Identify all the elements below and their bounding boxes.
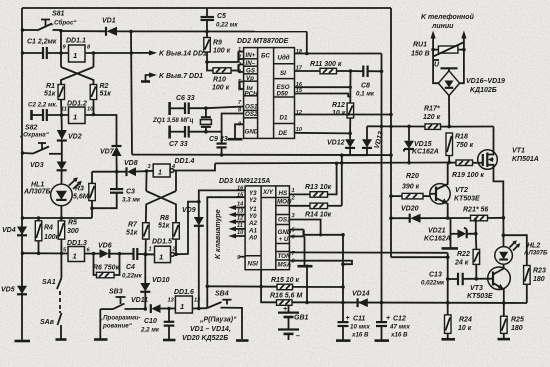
svg-text:14: 14 — [237, 201, 244, 207]
logic element DD1.1 — [63, 38, 92, 63]
wire GND pins 5-6 tie — [289, 230, 303, 237]
battery G81 — [278, 305, 309, 340]
wire HL2 to VT3 collector — [503, 264, 505, 268]
node TON-MSA output column — [305, 301, 309, 305]
svg-text:1: 1 — [292, 188, 295, 194]
node power line / vertical bus — [129, 30, 133, 34]
node VT3 emitter/rail — [502, 301, 506, 305]
svg-text:120 к: 120 к — [423, 114, 441, 121]
svg-text:OS1: OS1 — [245, 103, 258, 110]
svg-text:51к: 51к — [100, 91, 112, 98]
wire phone arrow left — [431, 31, 436, 50]
capacitor C12 47uF — [375, 303, 411, 341]
svg-text:10: 10 — [87, 107, 94, 113]
resistor R4 100k — [35, 218, 59, 253]
svg-text:16: 16 — [237, 186, 244, 192]
svg-text:VD6: VD6 — [98, 243, 112, 250]
svg-text:0,22 мк: 0,22 мк — [216, 22, 238, 29]
svg-text:VD10: VD10 — [152, 277, 170, 284]
diode VD10 — [140, 254, 169, 309]
svg-text:10 к: 10 к — [458, 325, 472, 332]
node R11/C8/R12 — [349, 69, 353, 73]
svg-text:DD1.5: DD1.5 — [152, 239, 172, 246]
pin numbers DD3 right — [291, 188, 296, 265]
resistor R2 51k — [90, 83, 111, 100]
capacitor C6 33 — [170, 95, 206, 115]
switch SAv — [40, 313, 67, 340]
svg-text:VD16–VD19: VD16–VD19 — [466, 78, 505, 85]
svg-text:KT503E: KT503E — [467, 293, 493, 300]
svg-text:R6 750к: R6 750к — [93, 265, 120, 272]
resistor R10 100k — [207, 62, 244, 92]
svg-text:C8: C8 — [361, 83, 370, 90]
wire VD12 tie down to R14 — [341, 155, 343, 206]
wire VD21 ground branch — [442, 218, 459, 248]
wire NSI pin9 stub — [240, 256, 246, 258]
svg-text:D1: D1 — [280, 115, 288, 122]
node K vyv.14 junction — [130, 51, 134, 55]
svg-text:KД102Б: KД102Б — [470, 87, 497, 94]
svg-text:C1 2,2мк: C1 2,2мк — [27, 39, 57, 46]
svg-text:R14 10к: R14 10к — [305, 212, 332, 219]
svg-text:DD3 UM91215A: DD3 UM91215A — [219, 178, 270, 185]
node R12/VD12/pin10 — [348, 132, 352, 136]
transistor VT1 KP501A (MOSFET) — [478, 127, 539, 218]
svg-text:HS: HS — [279, 190, 288, 197]
svg-text:24 к: 24 к — [454, 260, 469, 267]
capacitor C4 0.22uF — [122, 248, 155, 280]
wire power vertical bus — [381, 54, 383, 303]
svg-text:S81: S81 — [52, 11, 65, 18]
resistor R15 10k — [271, 277, 343, 290]
capacitor C7 33 — [169, 126, 206, 149]
switch SA1 — [42, 253, 61, 313]
svg-text:C4: C4 — [126, 264, 135, 271]
svg-text:R22: R22 — [457, 251, 470, 258]
wire R1 bottom — [60, 100, 63, 116]
svg-text:R8: R8 — [160, 215, 169, 222]
LED HL1 AL307B — [23, 177, 82, 206]
node RU1 right — [462, 48, 466, 52]
node VD21/R22 — [474, 232, 478, 236]
wire SI pin17 row — [295, 70, 321, 72]
svg-text:K тeлeфoннoй: K тeлeфoннoй — [421, 13, 475, 21]
svg-text:HL2: HL2 — [527, 243, 540, 250]
pin numbers DD2 right — [296, 49, 303, 133]
diode VD8 — [124, 160, 147, 176]
svg-text:R17*: R17* — [424, 106, 440, 113]
node S84 feed junction — [206, 285, 210, 289]
node D1/ground bus — [389, 113, 393, 117]
resistor R17* 120k — [423, 106, 449, 130]
wire osc to DD2 pin8 — [206, 114, 244, 132]
diode VD14 — [352, 291, 370, 308]
svg-text:+: + — [283, 306, 287, 313]
capacitor C8 0.1uF — [351, 66, 382, 98]
svg-text:VD12: VD12 — [327, 140, 345, 147]
logic element DD1.4 — [147, 158, 195, 177]
svg-text:R1: R1 — [46, 83, 55, 90]
node C3/R3 bottom — [90, 206, 94, 210]
resistor R16 5.6M — [261, 287, 302, 306]
logic element DD1.6 — [168, 289, 202, 313]
svg-text:SВ4: SВ4 — [215, 291, 229, 298]
svg-text:R5: R5 — [68, 220, 77, 227]
wire R23 top link — [503, 235, 526, 265]
svg-text:13: 13 — [168, 298, 175, 304]
svg-text:X/Y: X/Y — [262, 189, 274, 196]
wire phone arrow right — [461, 31, 466, 50]
crystal ZQ1 3.58 MHz — [152, 108, 211, 132]
svg-text:R7: R7 — [128, 222, 138, 229]
resistor R19 100k — [449, 160, 484, 179]
wire DD1.5 output to VD9 column — [174, 202, 199, 255]
svg-text:5,6M: 5,6M — [73, 194, 89, 201]
svg-text:AЛ307Б: AЛ307Б — [523, 250, 548, 257]
svg-text:+: + — [386, 315, 390, 322]
svg-text:C12: C12 — [393, 316, 406, 323]
node TON/bus elbow — [446, 255, 450, 259]
logic element DD1.3 — [63, 240, 91, 262]
svg-text:R21* 56: R21* 56 — [463, 207, 488, 214]
svg-text:C13: C13 — [429, 272, 442, 279]
wire DD3 pin15 column — [207, 197, 245, 308]
svg-text:х16 B: х16 B — [351, 332, 369, 339]
varistor RU1 150V — [411, 42, 464, 69]
transistor VT3 KT503E — [467, 267, 510, 303]
svg-text:1: 1 — [159, 253, 163, 262]
svg-text:OS1: OS1 — [278, 217, 291, 224]
svg-text:KП501A: KП501A — [512, 156, 539, 163]
svg-text:3,3 мк: 3,3 мк — [122, 197, 141, 204]
node power vertical crossing — [380, 125, 383, 128]
resistor R3 5.6M — [73, 183, 95, 200]
svg-text:„Oxpaнa“: „Oxpaнa“ — [19, 132, 50, 139]
node OS1 join — [319, 233, 322, 236]
svg-text:KT503E: KT503E — [454, 196, 480, 203]
svg-text:R18: R18 — [455, 134, 468, 141]
wire pin6 row to C11 column — [304, 234, 343, 236]
wire power line corner to pin18 — [306, 32, 308, 54]
resistor R22 24k — [454, 234, 480, 279]
ground terminal bar left rail bottom — [15, 340, 31, 343]
svg-text:0,22мк: 0,22мк — [122, 273, 143, 280]
svg-text:VD7: VD7 — [100, 149, 115, 156]
node R4 bottom — [37, 252, 41, 256]
node C13 left — [446, 277, 450, 281]
svg-text:VD4: VD4 — [2, 227, 16, 234]
svg-text:C6 33: C6 33 — [176, 95, 195, 102]
wire lower rail — [215, 162, 449, 165]
svg-text:A0: A0 — [248, 235, 257, 242]
svg-text:K клaвиaтypе: K клaвиaтypе — [215, 209, 222, 259]
svg-text:180: 180 — [511, 325, 523, 332]
wire TON pin7 row — [289, 251, 447, 253]
node rail y218 — [21, 216, 25, 220]
svg-text:1: 1 — [149, 247, 152, 253]
svg-text:MSA: MSA — [278, 262, 292, 269]
svg-text:SA1: SA1 — [42, 279, 56, 286]
annotation arrow K vyv.7 DD1 — [141, 72, 203, 81]
svg-text:DD1.6: DD1.6 — [174, 289, 194, 296]
node C1 wire left — [21, 51, 25, 55]
wire vertical from power line down to mid rail — [131, 32, 132, 155]
svg-text:VD20: VD20 — [401, 206, 419, 213]
svg-text:+: + — [346, 315, 350, 322]
node C4 wire / VD10 top — [144, 252, 148, 256]
wire left rail — [21, 8, 23, 341]
svg-text:DD1.1: DD1.1 — [66, 38, 86, 45]
node R15 right join — [341, 285, 345, 289]
svg-text:VD3: VD3 — [30, 162, 44, 169]
capacitor C10 2.2uF — [140, 309, 176, 341]
switch S81 "Сброс" — [23, 11, 78, 31]
node VD9 column join — [197, 200, 201, 204]
logic element DD1.5 — [146, 239, 177, 263]
wire HL1/R4/R5 row — [22, 217, 92, 219]
svg-text:R20: R20 — [406, 173, 419, 180]
svg-text:R19 100 к: R19 100 к — [452, 172, 484, 179]
resistor R21* 56 — [463, 207, 503, 221]
wire osc to DD2 pin7 — [206, 107, 244, 109]
svg-text:Y0: Y0 — [249, 213, 257, 220]
chip DD2 MT8870DE — [237, 38, 295, 138]
node ground bus crossing — [389, 125, 392, 128]
node DD1.4 input — [145, 169, 149, 173]
svg-text:DD1.2: DD1.2 — [67, 101, 87, 108]
svg-text:100 к: 100 к — [212, 85, 230, 92]
svg-text:SВ3: SВ3 — [109, 289, 123, 296]
svg-text:R12: R12 — [332, 102, 345, 109]
svg-text:51к: 51к — [44, 91, 56, 98]
svg-text:R23: R23 — [533, 268, 546, 275]
svg-text:A2: A2 — [248, 220, 257, 227]
capacitor C2 2.2uF — [28, 102, 69, 122]
node pin16 join — [349, 86, 352, 89]
resistor R8 51k — [158, 215, 179, 254]
svg-text:S82: S82 — [25, 125, 38, 132]
node C9 bottom on rail — [220, 153, 224, 157]
node R8 bottom / DD1.5 out — [174, 252, 178, 256]
svg-text:C10: C10 — [144, 318, 157, 325]
svg-text:C2 2,2 мк.: C2 2,2 мк. — [28, 102, 58, 109]
svg-text:PCH: PCH — [245, 90, 259, 97]
node tie/vertical — [340, 153, 344, 157]
svg-text:100 к: 100 к — [213, 48, 231, 55]
svg-text:VD8: VD8 — [124, 160, 138, 167]
svg-text:12: 12 — [194, 298, 201, 304]
svg-text:R4: R4 — [44, 225, 53, 232]
node R15 left — [259, 285, 263, 289]
keyboard arrows pins 14-10 — [229, 205, 246, 239]
svg-text:VD1 – VD14,: VD1 – VD14, — [190, 326, 231, 333]
svg-text:D50: D50 — [277, 90, 289, 97]
svg-text:300: 300 — [67, 228, 79, 235]
wire DD1.4 output to lower rail — [174, 163, 215, 170]
svg-text:OS2: OS2 — [245, 111, 258, 118]
svg-text:VD9: VD9 — [182, 207, 196, 214]
wire C11 column — [342, 235, 344, 303]
diode VD4 — [2, 227, 27, 236]
capacitor C13 0.022uF — [421, 272, 493, 287]
resistor R5 300 — [58, 218, 79, 253]
wire ESO pin16 row — [295, 86, 351, 88]
switch S82 "Охрана" — [19, 125, 62, 154]
svg-text:180: 180 — [533, 276, 545, 283]
node bridge/R17/R18 — [447, 125, 451, 129]
wire cross-coupling DD1.4 to R7/R8 — [146, 171, 176, 223]
capacitor C5 0.22uF — [201, 8, 239, 32]
node R13/lower rail — [335, 162, 339, 166]
node C10 top — [167, 307, 171, 311]
svg-text:K Bыв.14 DD1: K Bыв.14 DD1 — [159, 51, 207, 58]
svg-text:Uдд: Uдд — [278, 54, 290, 61]
svg-text:NSI: NSI — [248, 261, 259, 268]
node HL1/R5 top — [60, 216, 64, 220]
svg-text:0,022мк: 0,022мк — [421, 280, 445, 287]
switch S84 — [207, 291, 248, 341]
node C4/R7/DD1.5 input — [144, 253, 148, 257]
svg-text:0,1 мк: 0,1 мк — [356, 91, 375, 98]
svg-text:VD5: VD5 — [1, 287, 15, 294]
node VT2 emitter — [446, 216, 450, 220]
svg-text:VD21: VD21 — [428, 228, 446, 235]
annotation arrow K vyv.14 DD1 — [133, 50, 207, 57]
svg-text:10 мкх: 10 мкх — [350, 324, 370, 331]
svg-text:47 мкх: 47 мкх — [389, 324, 410, 331]
resistor R12 10k — [332, 102, 354, 133]
svg-text:VD2: VD2 — [68, 134, 82, 141]
svg-text:150 B: 150 B — [411, 51, 430, 58]
node R14 vertical/lower rail — [340, 161, 344, 165]
svg-text:VT2: VT2 — [455, 187, 468, 194]
wire DD1.6 output to S84 — [192, 307, 207, 309]
pin numbers DD2 left — [237, 47, 242, 128]
svg-text:KC162A: KC162A — [424, 236, 451, 243]
svg-text:RU1: RU1 — [413, 42, 427, 49]
wire HS pin1 row — [289, 193, 310, 195]
node C11 column top — [341, 233, 345, 237]
wire R17 node to VT1 drain — [449, 126, 493, 128]
node R22/VT3 base — [475, 277, 479, 281]
svg-text:R11 300 к: R11 300 к — [310, 61, 342, 68]
svg-text:51к: 51к — [126, 230, 138, 237]
node C12/power bus on rail — [380, 301, 384, 305]
diode VD3 — [30, 162, 67, 185]
svg-text:GS: GS — [246, 67, 256, 74]
resistor R1 51k — [44, 83, 65, 100]
diode VD1 — [61, 18, 307, 36]
chip DD3 UM91215A — [219, 178, 292, 270]
svg-text:VD14: VD14 — [352, 291, 370, 298]
resistor R11 300k — [310, 61, 351, 74]
svg-text:C7 33: C7 33 — [169, 141, 188, 148]
node VD15 bottom on lower rail — [407, 161, 411, 165]
resistor R24 10k — [442, 303, 472, 340]
bridge rectifier VD16-VD19 KD102B — [433, 50, 505, 127]
wire DE pin10 row — [295, 132, 351, 135]
wire S84 row to R15 — [207, 285, 277, 287]
svg-text:SAв: SAв — [40, 319, 55, 326]
svg-text:DD2 MT8870DЕ: DD2 MT8870DЕ — [237, 38, 289, 45]
svg-text:R13 10к: R13 10к — [305, 184, 332, 191]
svg-text:100к: 100к — [44, 234, 60, 241]
svg-text:AЛ307Б: AЛ307Б — [23, 189, 51, 196]
node DD1.1 output branch — [92, 51, 96, 55]
node S81/VD1 junction — [59, 29, 63, 33]
node upper rail end — [389, 153, 393, 157]
switch S83 Programming — [94, 289, 145, 340]
wire DD2 pins 5-6 tie — [240, 82, 244, 90]
resistor R25 180 — [498, 303, 524, 339]
LED HL2 AL307B — [495, 240, 548, 264]
node RU1 left — [431, 48, 435, 52]
svg-text:Vр: Vр — [246, 75, 254, 82]
diode VD5 — [1, 286, 27, 295]
wire MSA pin8 row — [289, 261, 352, 265]
svg-text:GВ1: GВ1 — [294, 315, 309, 322]
wire VD12/VD13 bottom tie — [342, 154, 367, 156]
diode VD6 — [98, 243, 133, 259]
svg-text:1: 1 — [73, 252, 77, 261]
wire R9 node to DD2 pins 1-2 — [207, 52, 244, 63]
wire DD1.3 input row — [22, 252, 68, 254]
wire cross-coupling DD1.1 to R1/R2 — [61, 53, 94, 85]
svg-text:10: 10 — [296, 127, 303, 133]
wire bottom supply rail — [292, 301, 527, 304]
svg-text:MOD: MOD — [277, 199, 292, 206]
wire ground bus vertical — [390, 8, 392, 257]
svg-text:K Bыв.7 DD1: K Bыв.7 DD1 — [159, 73, 203, 80]
node VD15 top — [407, 125, 411, 129]
svg-text:1: 1 — [238, 47, 241, 53]
resistor R6 750k — [93, 254, 120, 278]
transistor VT2 KT503E — [430, 163, 480, 219]
zener VD21 KS162A — [424, 228, 476, 243]
svg-text:БC: БC — [261, 53, 270, 60]
node C13/rail — [446, 301, 450, 305]
wire R2 bottom — [93, 100, 95, 114]
wire OS1 pin3 row — [289, 220, 320, 235]
svg-text:C11: C11 — [353, 316, 365, 323]
svg-text:линии: линии — [431, 23, 454, 30]
svg-text:DD1.4: DD1.4 — [175, 158, 195, 165]
svg-text:1: 1 — [73, 51, 77, 60]
svg-text:10 к: 10 к — [332, 110, 346, 117]
svg-text:DE: DE — [279, 130, 288, 137]
svg-text:VT3: VT3 — [470, 285, 483, 292]
node C2/R1/VD2 junction — [60, 113, 64, 117]
node rail y253 — [21, 251, 25, 255]
diode VD2 — [57, 115, 82, 162]
node R9/R10 — [205, 60, 209, 64]
svg-text:SI: SI — [280, 70, 286, 77]
resistor R23 180 — [524, 266, 546, 304]
svg-text:Y1: Y1 — [249, 206, 257, 213]
wire R21 stub down — [475, 218, 477, 234]
svg-text:VD11: VD11 — [131, 297, 148, 304]
resistor R14 10k — [305, 203, 342, 218]
capacitor C1 2.2uF — [23, 39, 69, 60]
resistor R18 750k — [446, 133, 474, 163]
label K telefonnoy linii — [421, 13, 475, 30]
svg-text:ZQ1 3,58 MГц: ZQ1 3,58 MГц — [152, 117, 193, 124]
node C5/R9/power — [205, 30, 209, 34]
node R6 branch left — [92, 252, 96, 256]
wire MOD pin2 row — [289, 205, 310, 207]
svg-text:poвaниe“: poвaниe“ — [102, 323, 133, 330]
node R23 tap — [502, 233, 506, 237]
